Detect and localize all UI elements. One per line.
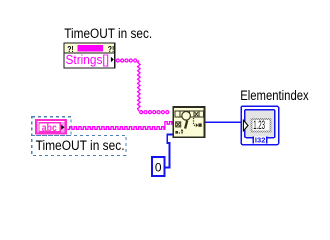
icon: magnifier handle <box>185 121 187 129</box>
indicator: recessed value frame (stippled) <box>250 118 271 133</box>
svg-text:TimeOUT in sec.: TimeOUT in sec. <box>36 138 125 153</box>
svg-text:Elementindex: Elementindex <box>240 88 309 103</box>
indicator: I32 tab <box>253 137 266 144</box>
wire: I32 output from Search 1D Array to Elementindex indicator <box>204 121 242 123</box>
svg-text:0: 0 <box>155 160 162 174</box>
string constant abc (TimeOUT in sec.) <box>35 119 67 135</box>
function: Search 1D Array node body <box>173 107 204 137</box>
array control Strings[] shell <box>64 43 115 68</box>
svg-text:1.23: 1.23 <box>253 120 265 132</box>
wire: string-array chain vertical zigzag segment <box>138 61 141 112</box>
icon: array cells row <box>175 111 203 117</box>
wire: string-array chain horizontal run 2 into Search 1D Array <box>140 111 169 114</box>
constant: 0 (start index) <box>152 157 164 176</box>
abc output terminal arrow <box>61 125 64 130</box>
wire: string-array chain from Strings[] array control (horizontal run 1) <box>116 59 136 62</box>
wire: string squiggle from abc constant to Search 1D Array element input <box>67 122 173 130</box>
array output terminal arrow <box>111 57 114 62</box>
icon: X marker in found cell <box>195 112 198 116</box>
svg-text:TimeOUT in sec.: TimeOUT in sec. <box>64 26 152 41</box>
icon: dotted index path with arrow to output square <box>193 118 202 127</box>
icon: element box with X <box>176 122 181 127</box>
array horizontal scrollbar (magenta bar) <box>78 45 103 52</box>
wire: I32 from constant 0 to Search 1D Array start-index input <box>164 134 174 167</box>
svg-text:I32: I32 <box>255 138 266 145</box>
icon: magnifying glass <box>182 112 191 121</box>
icon: start-index square and dashed up arrow <box>175 129 183 134</box>
selection marquee (dashed) around abc string constant <box>32 117 71 136</box>
indicator: input terminal triangle <box>243 120 248 131</box>
indicator: Elementindex I32 terminal <box>241 106 279 145</box>
selection marquee (dashed) around TimeOUT in sec. label <box>32 135 126 155</box>
svg-text:Strings[]: Strings[] <box>66 53 110 67</box>
svg-text:abc: abc <box>42 122 57 134</box>
